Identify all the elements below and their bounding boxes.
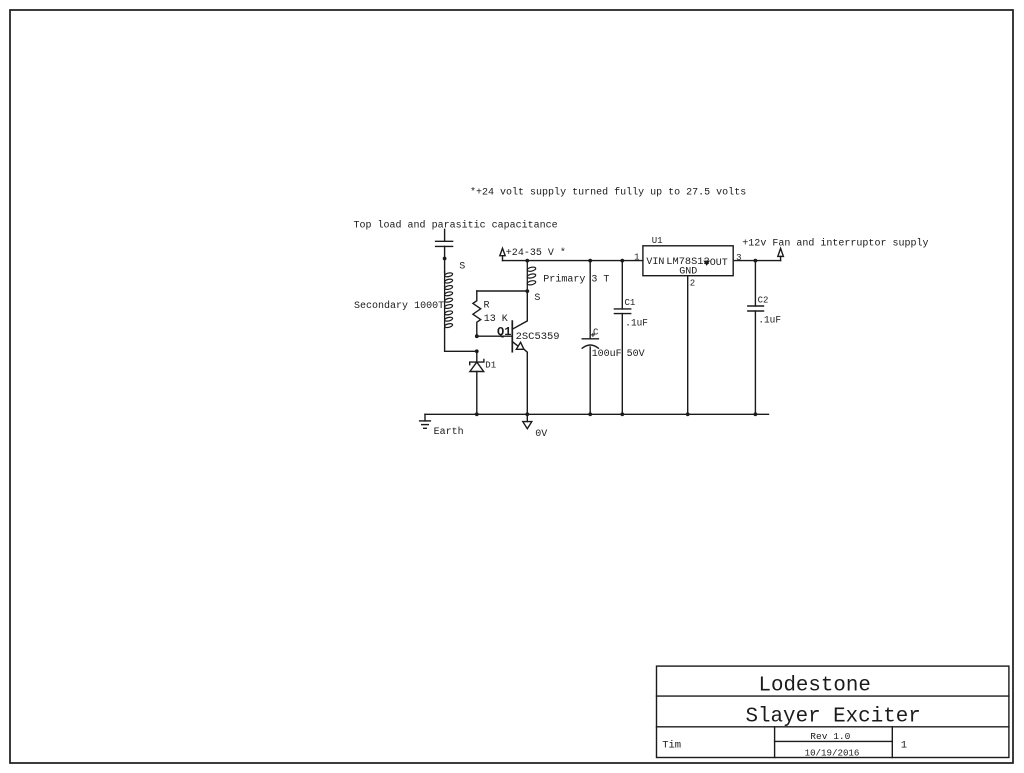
inductor primary L2 bbox=[527, 261, 536, 292]
node junction emitter-rail bbox=[525, 412, 529, 416]
capacitor C polarized bbox=[582, 333, 598, 348]
svg-text:U1: U1 bbox=[652, 236, 663, 246]
wire C top bbox=[589, 261, 591, 339]
svg-text:Rev 1.0: Rev 1.0 bbox=[810, 731, 850, 742]
transistor Q1 bbox=[512, 291, 527, 414]
op-amp U1 regulator box bbox=[643, 246, 733, 276]
svg-text:*+24 volt supply turned fully: *+24 volt supply turned fully up to 27.5… bbox=[470, 187, 746, 199]
title block frame bbox=[657, 666, 1009, 757]
svg-text:S: S bbox=[459, 261, 465, 272]
svg-text:50V: 50V bbox=[627, 349, 645, 360]
power flag +24-35V bbox=[500, 248, 505, 260]
wire C2 bottom bbox=[754, 311, 756, 414]
svg-text:1: 1 bbox=[634, 253, 639, 263]
svg-text:Primary 3 T: Primary 3 T bbox=[543, 274, 609, 286]
node junction base bbox=[475, 334, 479, 338]
wire cap to coil bbox=[444, 246, 446, 272]
node junction secondary top bbox=[443, 257, 447, 261]
wire C1 bottom bbox=[621, 314, 623, 415]
svg-text:Secondary 1000T: Secondary 1000T bbox=[354, 300, 444, 312]
svg-text:2: 2 bbox=[690, 279, 695, 289]
node junction C2 rail bbox=[754, 412, 758, 416]
value label 100uF 50V bbox=[592, 349, 645, 360]
power flag +12v bbox=[778, 248, 784, 260]
svg-text:C1: C1 bbox=[625, 298, 636, 308]
wire U1 pin2 to rail bbox=[687, 276, 689, 415]
svg-text:13 K: 13 K bbox=[484, 314, 508, 325]
svg-text:VIN: VIN bbox=[646, 257, 664, 268]
svg-text:Tim: Tim bbox=[662, 740, 681, 752]
svg-text:10/19/2016: 10/19/2016 bbox=[805, 748, 860, 759]
node junction C rail bbox=[588, 412, 592, 416]
svg-text:+12v Fan and interruptor suppl: +12v Fan and interruptor supply bbox=[742, 237, 928, 249]
svg-text:+24-35 V *: +24-35 V * bbox=[506, 247, 566, 259]
ground flag 0V bbox=[523, 414, 532, 428]
wire secondary bottom bbox=[445, 329, 477, 352]
node junction primary top bbox=[525, 259, 529, 263]
wire top cap stub bbox=[444, 229, 446, 241]
wire diode to ground rail bbox=[476, 372, 478, 415]
wire base bbox=[477, 335, 513, 337]
wire C1 top bbox=[621, 261, 623, 309]
resistor R bbox=[473, 291, 481, 336]
svg-text:R: R bbox=[484, 301, 490, 312]
node junction pin2 rail bbox=[686, 412, 690, 416]
ground earth symbol bbox=[420, 414, 431, 428]
svg-text:Lodestone: Lodestone bbox=[759, 675, 871, 698]
capacitor C2 bbox=[748, 306, 764, 311]
svg-text:100uF: 100uF bbox=[592, 349, 622, 360]
wire C bottom bbox=[589, 347, 591, 414]
wire diode top bbox=[476, 351, 478, 362]
svg-text:Q1: Q1 bbox=[497, 325, 511, 339]
node junction C top bbox=[588, 259, 592, 263]
svg-text:0V: 0V bbox=[535, 429, 547, 440]
wire top rail right bbox=[733, 260, 780, 262]
svg-text:Top load and parasitic capacit: Top load and parasitic capacitance bbox=[354, 219, 558, 231]
node junction C1 top bbox=[620, 259, 624, 263]
wire top rail left bbox=[503, 260, 643, 262]
svg-text:3: 3 bbox=[736, 253, 741, 263]
wire ground rail bbox=[425, 413, 769, 415]
svg-text:D1: D1 bbox=[485, 361, 496, 371]
node junction C2 top bbox=[754, 259, 758, 263]
wire primary to resistor bbox=[477, 290, 528, 292]
svg-text:2SC5359: 2SC5359 bbox=[516, 332, 560, 343]
svg-text:1: 1 bbox=[901, 740, 907, 752]
svg-text:S: S bbox=[534, 293, 540, 304]
capacitor top load bbox=[436, 241, 453, 246]
svg-text:Earth: Earth bbox=[434, 426, 464, 438]
node junction primary bottom bbox=[525, 289, 529, 293]
svg-text:.1uF: .1uF bbox=[758, 316, 781, 327]
svg-text:.1uF: .1uF bbox=[625, 318, 648, 329]
svg-text:C2: C2 bbox=[758, 296, 769, 306]
pin marker arrow bbox=[703, 261, 710, 266]
inductor secondary L1 bbox=[444, 272, 453, 329]
svg-text:C: C bbox=[593, 328, 599, 338]
wire C2 top bbox=[754, 261, 756, 306]
svg-text:Slayer Exciter: Slayer Exciter bbox=[746, 705, 921, 728]
svg-text:OUT: OUT bbox=[710, 258, 728, 269]
diode D1 zener bbox=[470, 360, 484, 372]
node junction diode-rail bbox=[475, 412, 479, 416]
node junction C1 rail bbox=[620, 412, 624, 416]
capacitor C1 bbox=[614, 309, 630, 314]
node junction secondary-diode bbox=[475, 349, 479, 353]
